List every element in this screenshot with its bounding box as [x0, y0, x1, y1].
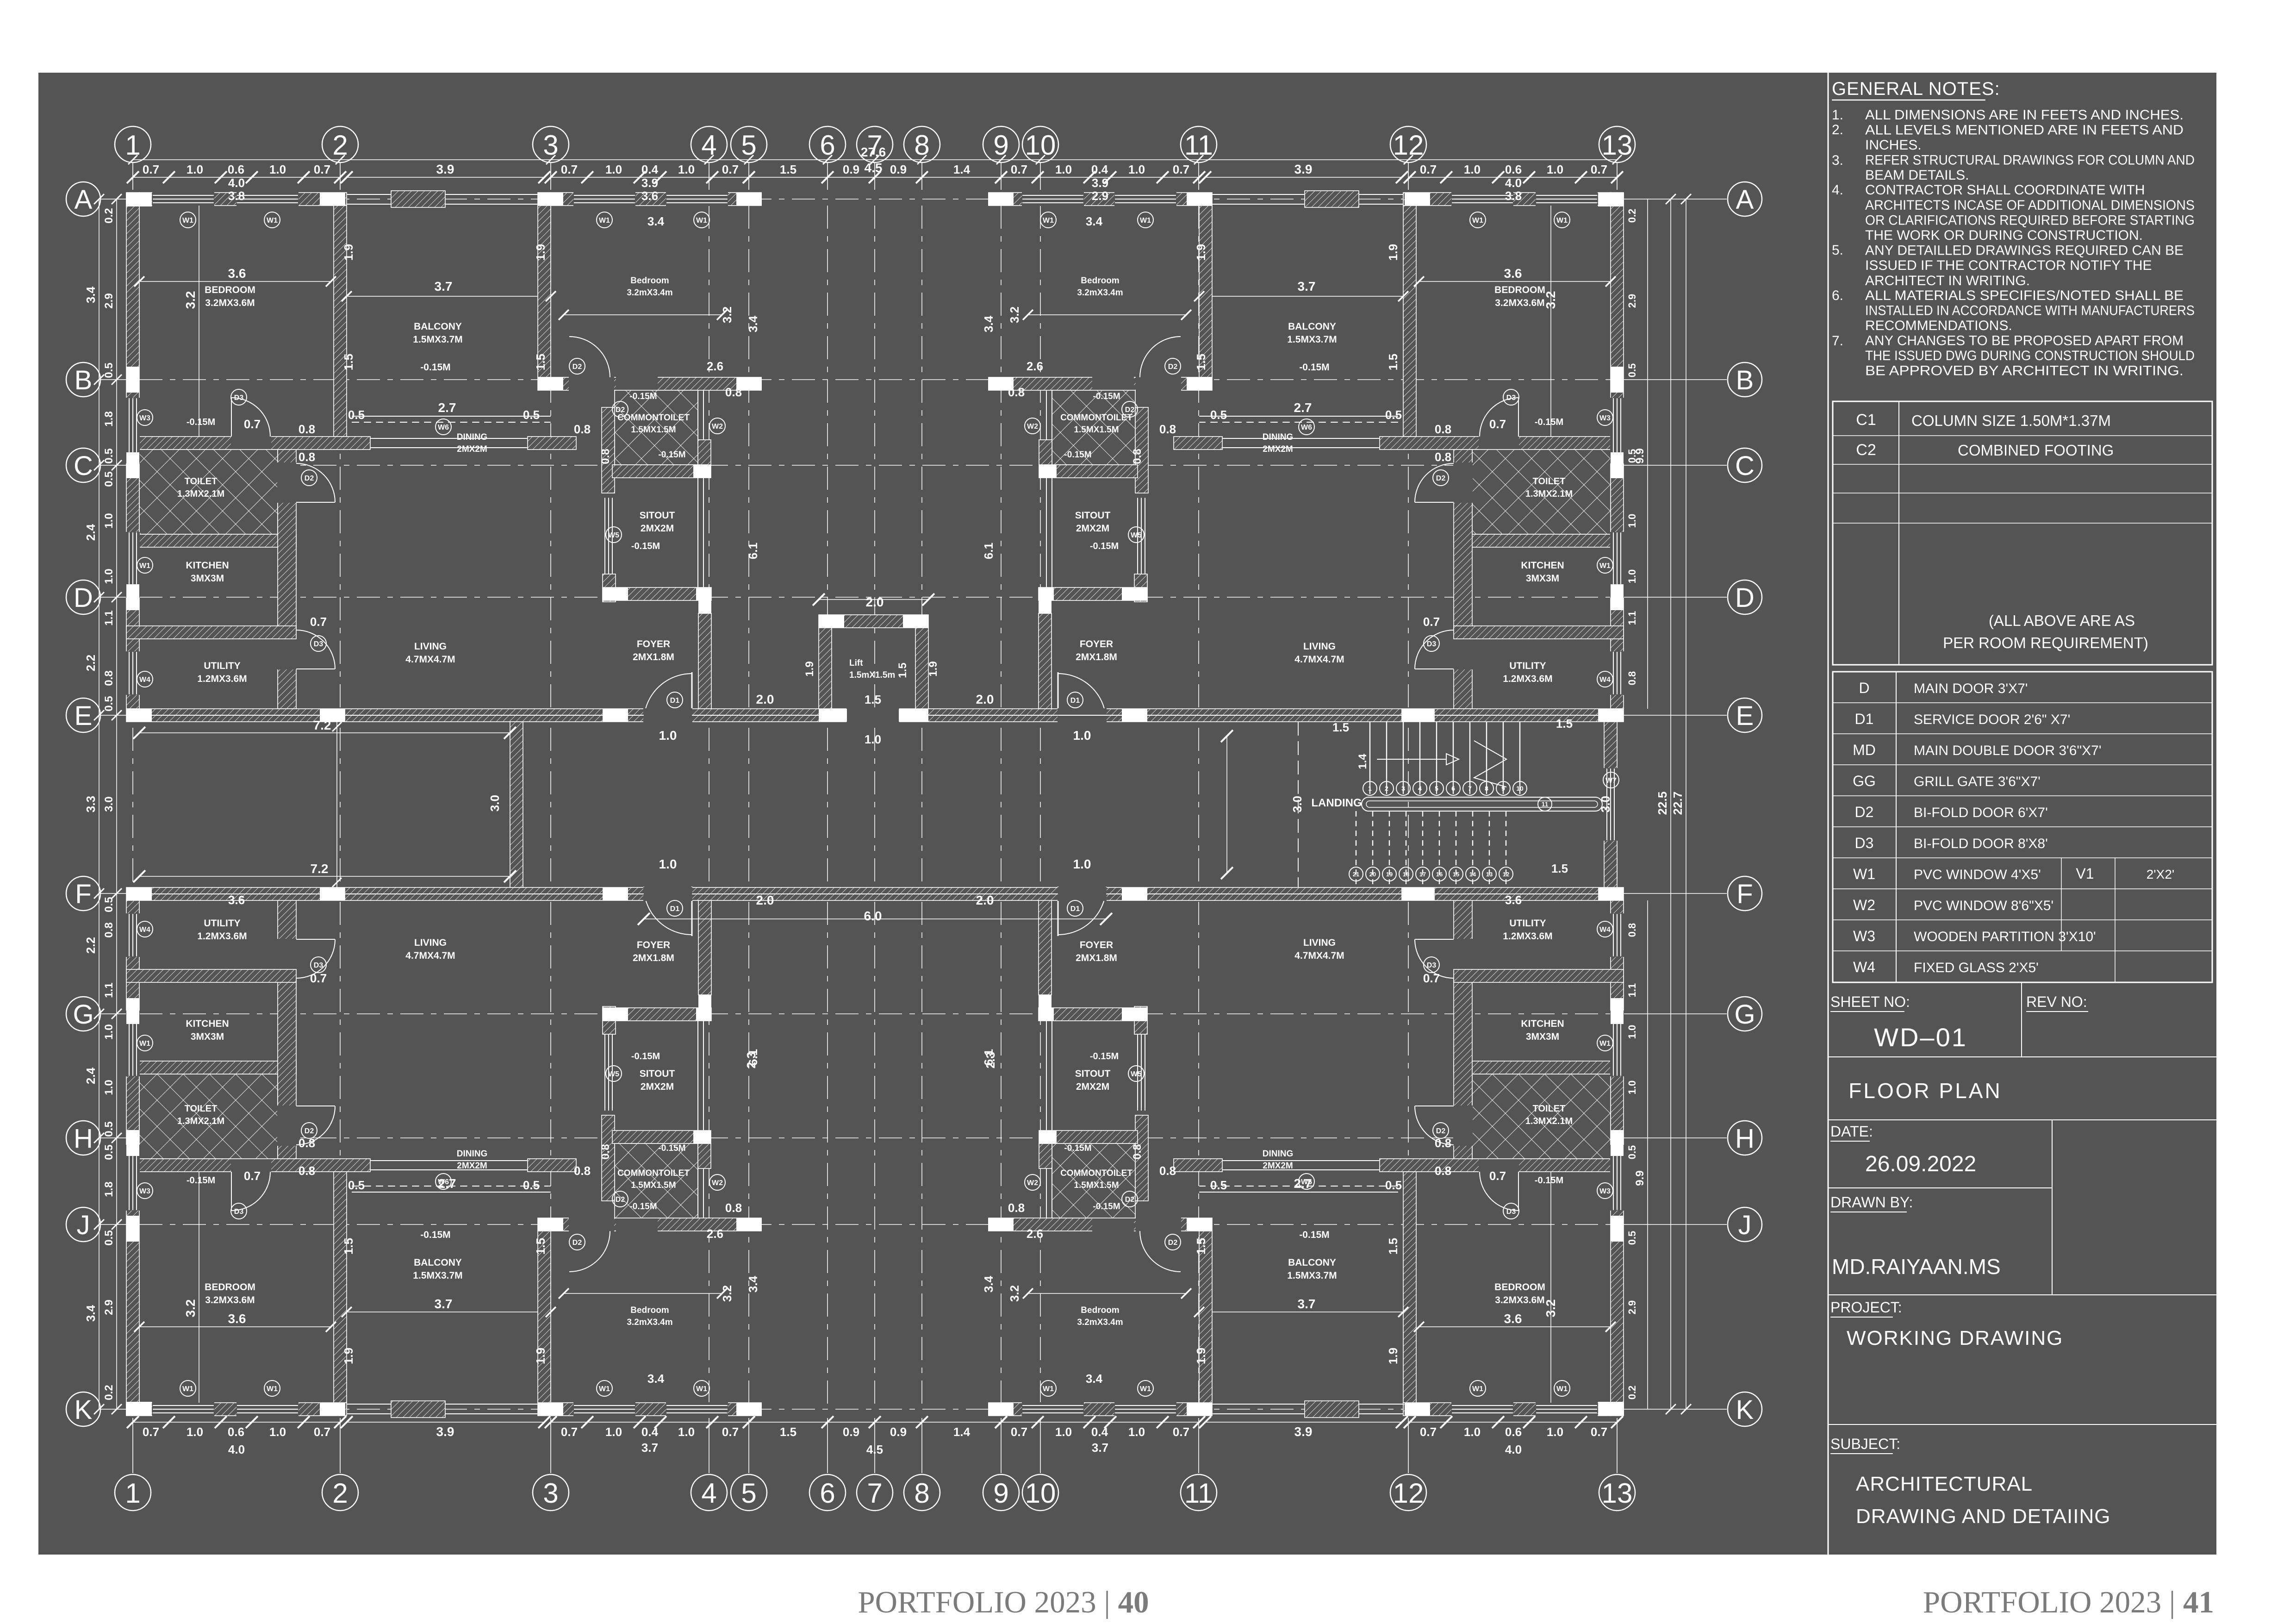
svg-text:3.6: 3.6	[1504, 1312, 1522, 1326]
svg-text:21: 21	[1353, 871, 1359, 878]
svg-text:A: A	[1736, 185, 1754, 215]
svg-text:-0.15M: -0.15M	[420, 1230, 450, 1240]
svg-text:0.8: 0.8	[1435, 1164, 1451, 1178]
svg-text:OR CLARIFICATIONS REQUIRED BEF: OR CLARIFICATIONS REQUIRED BEFORE STARTI…	[1865, 213, 2195, 228]
svg-text:LANDING: LANDING	[1311, 797, 1362, 809]
svg-text:J: J	[1738, 1210, 1752, 1240]
svg-text:3.7: 3.7	[435, 279, 453, 294]
svg-text:3MX3M: 3MX3M	[1526, 573, 1559, 584]
svg-text:1.0: 1.0	[1626, 569, 1638, 584]
svg-text:7.2: 7.2	[313, 718, 331, 732]
lift shaft	[819, 615, 928, 628]
svg-text:LIVING: LIVING	[414, 937, 447, 948]
top dimension rows	[133, 159, 1617, 160]
svg-text:1.2MX3.6M: 1.2MX3.6M	[1503, 674, 1552, 684]
svg-text:1.0: 1.0	[1055, 162, 1072, 176]
svg-text:11: 11	[1542, 800, 1549, 808]
svg-text:3.4: 3.4	[84, 286, 98, 303]
svg-text:1.0: 1.0	[1055, 1425, 1072, 1439]
svg-text:1.5MX3.7M: 1.5MX3.7M	[1287, 334, 1337, 345]
svg-text:10: 10	[1516, 785, 1524, 792]
svg-text:6: 6	[1451, 785, 1455, 792]
svg-text:COMMONTOILET: COMMONTOILET	[1060, 413, 1132, 423]
svg-text:0.5: 0.5	[1626, 1145, 1638, 1160]
svg-text:PVC WINDOW 4'X5': PVC WINDOW 4'X5'	[1914, 867, 2041, 882]
svg-text:0.8: 0.8	[599, 449, 612, 464]
svg-text:0.5: 0.5	[103, 897, 115, 912]
svg-text:1.5: 1.5	[780, 162, 796, 176]
svg-text:2.2: 2.2	[84, 937, 98, 954]
svg-text:LIVING: LIVING	[1303, 641, 1336, 652]
svg-text:0.6: 0.6	[228, 1425, 244, 1439]
svg-text:W1: W1	[696, 217, 707, 225]
svg-text:0.7: 0.7	[561, 162, 578, 176]
svg-text:6: 6	[820, 130, 835, 161]
svg-text:3.7: 3.7	[1092, 1441, 1108, 1455]
svg-text:W6: W6	[438, 424, 449, 431]
svg-text:0.6: 0.6	[1505, 1425, 1522, 1439]
svg-text:-0.15M: -0.15M	[658, 450, 685, 460]
svg-text:SITOUT: SITOUT	[640, 510, 675, 521]
svg-text:1.0: 1.0	[1464, 1425, 1481, 1439]
svg-text:8: 8	[1485, 785, 1488, 792]
svg-text:Bedroom: Bedroom	[1081, 276, 1119, 286]
svg-text:W1: W1	[599, 217, 610, 225]
svg-text:1.0: 1.0	[1073, 857, 1091, 871]
svg-text:1.0: 1.0	[103, 1080, 115, 1095]
svg-text:TOILET: TOILET	[1533, 1104, 1566, 1114]
svg-text:6.1: 6.1	[982, 1049, 996, 1066]
svg-text:3: 3	[543, 130, 558, 161]
svg-text:3.2: 3.2	[720, 1285, 734, 1302]
svg-text:6.1: 6.1	[982, 543, 996, 559]
svg-text:1.0: 1.0	[187, 1425, 203, 1439]
svg-text:2.0: 2.0	[976, 692, 994, 706]
svg-text:4.0: 4.0	[228, 1443, 245, 1456]
stair treads upper flight	[1369, 722, 1370, 794]
svg-text:4.0: 4.0	[228, 176, 245, 190]
svg-text:1.5: 1.5	[1386, 1238, 1400, 1255]
svg-text:0.5: 0.5	[103, 696, 115, 711]
svg-text:2.0: 2.0	[866, 595, 884, 609]
svg-text:W4: W4	[1599, 676, 1611, 684]
svg-text:1.5: 1.5	[342, 1238, 355, 1255]
svg-text:GENERAL NOTES:: GENERAL NOTES:	[1832, 79, 2000, 99]
svg-text:2.9: 2.9	[1626, 1300, 1638, 1315]
svg-text:D2: D2	[1168, 363, 1178, 371]
svg-text:1.8: 1.8	[103, 1181, 115, 1197]
svg-text:W5: W5	[608, 531, 619, 539]
svg-text:D3: D3	[1855, 835, 1874, 851]
svg-text:-0.15M: -0.15M	[658, 1143, 685, 1153]
svg-text:D2: D2	[1125, 406, 1135, 414]
svg-text:17: 17	[1419, 871, 1426, 878]
svg-text:D2: D2	[1436, 475, 1446, 482]
svg-text:3.4: 3.4	[647, 214, 665, 228]
svg-text:0.9: 0.9	[843, 1425, 859, 1439]
svg-text:MAIN DOOR 3'X7': MAIN DOOR 3'X7'	[1914, 681, 2028, 696]
svg-text:22.7: 22.7	[1671, 792, 1685, 815]
svg-text:1.0: 1.0	[1626, 1081, 1638, 1095]
svg-text:8: 8	[914, 130, 929, 161]
svg-text:8: 8	[914, 1478, 929, 1509]
svg-text:1.0: 1.0	[1626, 1025, 1638, 1039]
svg-text:0.7: 0.7	[143, 162, 159, 176]
svg-text:3.6: 3.6	[1505, 893, 1522, 907]
svg-text:2.4: 2.4	[84, 524, 98, 541]
svg-text:3.2mX3.4m: 3.2mX3.4m	[627, 288, 672, 298]
svg-text:BEDROOM: BEDROOM	[1494, 1282, 1545, 1293]
right exterior wall at stairwell	[1604, 722, 1617, 887]
svg-text:1.0: 1.0	[269, 162, 286, 176]
svg-text:1.5: 1.5	[1332, 720, 1349, 734]
svg-text:0.8: 0.8	[1159, 1164, 1176, 1178]
svg-text:D3: D3	[234, 1208, 244, 1216]
svg-text:Lift: Lift	[849, 658, 863, 668]
svg-text:W2: W2	[1027, 1179, 1038, 1187]
svg-text:0.4: 0.4	[641, 162, 659, 176]
svg-text:-0.15M: -0.15M	[629, 392, 657, 401]
svg-text:D3: D3	[314, 640, 324, 648]
svg-text:3.2: 3.2	[720, 306, 734, 323]
svg-text:1.0: 1.0	[269, 1425, 286, 1439]
svg-text:UTILITY: UTILITY	[1509, 918, 1546, 929]
svg-text:1.0: 1.0	[1547, 162, 1563, 176]
svg-text:1.: 1.	[1832, 107, 1843, 123]
svg-text:1.4: 1.4	[953, 1425, 971, 1439]
svg-text:W1: W1	[267, 217, 278, 225]
svg-text:4.: 4.	[1832, 182, 1843, 198]
svg-text:1.5: 1.5	[534, 354, 548, 370]
svg-text:1.2MX3.6M: 1.2MX3.6M	[197, 931, 247, 942]
svg-text:0.8: 0.8	[725, 1201, 742, 1215]
svg-text:1.0: 1.0	[659, 857, 677, 871]
svg-text:FOYER: FOYER	[1080, 940, 1113, 950]
svg-text:D1: D1	[1070, 697, 1080, 705]
svg-text:1.3MX2.1M: 1.3MX2.1M	[1525, 1116, 1573, 1126]
svg-text:1.5: 1.5	[1551, 862, 1568, 875]
svg-text:3.2: 3.2	[1008, 1285, 1021, 1302]
dim ticks unit	[1605, 276, 1616, 287]
svg-text:0.8: 0.8	[299, 1164, 315, 1178]
svg-text:9: 9	[993, 1478, 1008, 1509]
svg-text:0.6: 0.6	[1505, 162, 1522, 176]
svg-text:3.0: 3.0	[1290, 796, 1304, 812]
svg-text:W1: W1	[182, 1385, 193, 1393]
svg-text:ISSUED IF THE CONTRACTOR NOTIF: ISSUED IF THE CONTRACTOR NOTIFY THE	[1865, 258, 2152, 273]
svg-text:0.5: 0.5	[103, 1230, 115, 1245]
svg-text:3.6: 3.6	[1504, 266, 1522, 281]
svg-text:7: 7	[867, 1478, 882, 1509]
svg-text:1.9: 1.9	[803, 661, 816, 676]
svg-text:MD: MD	[1853, 742, 1876, 758]
svg-text:0.7: 0.7	[1489, 417, 1506, 431]
svg-text:3.7: 3.7	[435, 1297, 453, 1311]
svg-text:1.5MX1.5M: 1.5MX1.5M	[1074, 425, 1119, 435]
svg-text:27.6: 27.6	[861, 145, 886, 159]
svg-text:H: H	[1735, 1124, 1755, 1154]
svg-text:SITOUT: SITOUT	[1075, 1068, 1111, 1079]
svg-text:E: E	[75, 701, 93, 731]
svg-text:0.4: 0.4	[1091, 162, 1108, 176]
svg-text:0.7: 0.7	[1591, 162, 1607, 176]
svg-text:5.: 5.	[1832, 243, 1843, 258]
svg-text:FLOOR PLAN: FLOOR PLAN	[1848, 1079, 2002, 1103]
svg-text:3.9: 3.9	[1294, 1424, 1313, 1439]
svg-text:0.7: 0.7	[722, 162, 739, 176]
svg-text:0.5: 0.5	[348, 408, 365, 422]
svg-text:Bedroom: Bedroom	[630, 1305, 669, 1315]
svg-text:1.5: 1.5	[1194, 354, 1208, 370]
svg-text:W4: W4	[139, 676, 150, 684]
svg-text:1.0: 1.0	[678, 1425, 695, 1439]
svg-text:1.0: 1.0	[1626, 514, 1638, 528]
svg-text:GG: GG	[1853, 773, 1876, 789]
svg-text:3.3: 3.3	[84, 796, 98, 812]
svg-text:1.5: 1.5	[1194, 1238, 1208, 1255]
svg-text:2MX2M: 2MX2M	[641, 523, 674, 534]
svg-text:BI-FOLD DOOR 6'X7': BI-FOLD DOOR 6'X7'	[1914, 805, 2048, 820]
svg-text:12: 12	[1393, 1478, 1424, 1509]
svg-text:DINING: DINING	[1263, 1149, 1294, 1159]
svg-text:2.7: 2.7	[438, 400, 456, 415]
svg-text:3.4: 3.4	[1086, 214, 1103, 228]
svg-text:1.3MX2.1M: 1.3MX2.1M	[177, 489, 224, 499]
svg-text:SITOUT: SITOUT	[640, 1068, 675, 1079]
svg-text:COMMONTOILET: COMMONTOILET	[617, 413, 690, 423]
svg-text:15: 15	[1453, 871, 1459, 878]
svg-text:0.8: 0.8	[1131, 449, 1144, 464]
svg-text:WORKING DRAWING: WORKING DRAWING	[1847, 1327, 2063, 1349]
svg-text:0.9: 0.9	[890, 1425, 907, 1439]
svg-text:H: H	[74, 1124, 93, 1154]
svg-text:11: 11	[1184, 1478, 1213, 1509]
svg-text:F: F	[1736, 879, 1753, 909]
svg-text:CONTRACTOR SHALL COORDINATE WI: CONTRACTOR SHALL COORDINATE WITH	[1865, 182, 2145, 198]
svg-text:KITCHEN: KITCHEN	[186, 1018, 229, 1029]
svg-text:D2: D2	[1125, 1196, 1135, 1204]
svg-text:3.4: 3.4	[746, 1275, 760, 1293]
svg-text:1.9: 1.9	[927, 661, 940, 676]
svg-text:D3: D3	[314, 962, 324, 969]
svg-text:1.5MX3.7M: 1.5MX3.7M	[1287, 1270, 1337, 1281]
svg-text:4: 4	[701, 1478, 716, 1509]
svg-text:2.6: 2.6	[1027, 1227, 1043, 1241]
svg-text:3.2: 3.2	[1008, 306, 1021, 323]
svg-text:0.8: 0.8	[1435, 422, 1451, 436]
svg-text:12: 12	[1393, 130, 1424, 161]
svg-text:0.5: 0.5	[523, 1178, 540, 1192]
svg-text:0.2: 0.2	[103, 1385, 115, 1400]
svg-text:4.0: 4.0	[1505, 1443, 1522, 1456]
svg-text:B: B	[1736, 365, 1754, 395]
svg-text:0.2: 0.2	[1626, 1386, 1638, 1400]
svg-text:1.1: 1.1	[103, 610, 115, 625]
svg-text:0.7: 0.7	[561, 1425, 578, 1439]
svg-text:2MX1.8M: 2MX1.8M	[633, 652, 674, 662]
svg-text:1.5MX1.5M: 1.5MX1.5M	[631, 425, 676, 435]
svg-text:0.7: 0.7	[1173, 162, 1189, 176]
svg-text:6: 6	[820, 1478, 835, 1509]
svg-text:1.5: 1.5	[342, 354, 355, 370]
svg-text:V1: V1	[2076, 865, 2094, 882]
svg-text:KITCHEN: KITCHEN	[1521, 560, 1564, 571]
svg-text:3.7: 3.7	[1298, 1297, 1316, 1311]
svg-text:TOILET: TOILET	[1533, 476, 1566, 487]
svg-text:W5: W5	[608, 1070, 619, 1078]
svg-text:COMMONTOILET: COMMONTOILET	[1060, 1168, 1132, 1178]
svg-text:UTILITY: UTILITY	[204, 918, 240, 929]
dim ticks unit	[134, 1322, 144, 1332]
svg-text:2.6: 2.6	[707, 1227, 723, 1241]
svg-text:D2: D2	[1168, 1239, 1178, 1247]
svg-text:0.8: 0.8	[299, 422, 315, 436]
svg-text:KITCHEN: KITCHEN	[1521, 1018, 1564, 1029]
svg-text:PER ROOM REQUIREMENT): PER ROOM REQUIREMENT)	[1943, 634, 2148, 651]
svg-text:13: 13	[1602, 1478, 1633, 1509]
svg-text:BI-FOLD DOOR 8'X8': BI-FOLD DOOR 8'X8'	[1914, 836, 2048, 851]
svg-text:3.4: 3.4	[84, 1305, 98, 1322]
svg-text:ARCHITECT IN WRITING.: ARCHITECT IN WRITING.	[1865, 273, 2030, 288]
svg-text:3.7: 3.7	[1298, 279, 1316, 294]
svg-text:B: B	[75, 365, 93, 395]
svg-text:2: 2	[332, 1478, 348, 1509]
svg-text:1.0: 1.0	[1073, 728, 1091, 743]
svg-text:11: 11	[1184, 130, 1213, 161]
svg-text:-0.15M: -0.15M	[1093, 392, 1120, 401]
svg-text:D2: D2	[1855, 804, 1874, 820]
svg-text:LIVING: LIVING	[414, 641, 447, 652]
svg-text:ANY DETAILLED DRAWINGS REQUIRE: ANY DETAILLED DRAWINGS REQUIRED CAN BE	[1865, 243, 2184, 258]
svg-text:DINING: DINING	[457, 432, 488, 442]
svg-text:1.2MX3.6M: 1.2MX3.6M	[1503, 931, 1552, 942]
svg-text:BEDROOM: BEDROOM	[205, 1282, 255, 1293]
svg-text:(ALL ABOVE ARE AS: (ALL ABOVE ARE AS	[1989, 612, 2135, 629]
svg-text:PORTFOLIO 2023 | 40: PORTFOLIO 2023 | 40	[858, 1585, 1149, 1619]
unit walls quadrant fx=-1 fy=-1	[1611, 899, 1624, 1416]
svg-text:0.7: 0.7	[1489, 1169, 1506, 1183]
svg-text:-0.15M: -0.15M	[1299, 362, 1329, 373]
svg-text:1.9: 1.9	[534, 244, 548, 261]
svg-text:BEDROOM: BEDROOM	[205, 285, 255, 295]
svg-text:PORTFOLIO 2023 | 41: PORTFOLIO 2023 | 41	[1923, 1585, 2214, 1619]
svg-text:3.7: 3.7	[641, 1441, 658, 1455]
svg-text:W3: W3	[1599, 1187, 1611, 1195]
svg-text:0.7: 0.7	[722, 1425, 739, 1439]
svg-text:3.4: 3.4	[982, 1275, 996, 1293]
svg-text:D3: D3	[1506, 1208, 1516, 1216]
right dimension columns	[1670, 199, 1671, 1409]
svg-text:1.1: 1.1	[1626, 983, 1638, 998]
svg-text:C1: C1	[1856, 411, 1876, 429]
svg-text:16: 16	[1436, 871, 1443, 878]
svg-text:INSTALLED IN ACCORDANCE WITH M: INSTALLED IN ACCORDANCE WITH MANUFACTURE…	[1865, 303, 2195, 319]
svg-text:W5: W5	[1131, 1070, 1142, 1078]
svg-text:WD–01: WD–01	[1874, 1023, 1967, 1052]
svg-text:3MX3M: 3MX3M	[191, 573, 224, 584]
svg-text:W4: W4	[1599, 926, 1611, 934]
svg-text:0.5: 0.5	[1626, 449, 1638, 463]
svg-text:12: 12	[1503, 871, 1509, 878]
svg-text:W1: W1	[1140, 1385, 1151, 1393]
svg-text:1.5mX1.5m: 1.5mX1.5m	[849, 670, 895, 680]
svg-text:Bedroom: Bedroom	[1081, 1305, 1119, 1315]
svg-text:2.: 2.	[1832, 122, 1843, 137]
svg-text:ARCHITECTS INCASE OF ADDITIONA: ARCHITECTS INCASE OF ADDITIONAL DIMENSIO…	[1865, 198, 2195, 213]
unit walls quadrant fx=-1 fy=1	[1611, 193, 1624, 709]
svg-text:3.2MX3.6M: 3.2MX3.6M	[205, 298, 255, 308]
svg-text:2.0: 2.0	[756, 692, 774, 706]
svg-text:1.0: 1.0	[103, 1024, 115, 1039]
svg-text:4.0: 4.0	[1505, 176, 1522, 190]
svg-text:3.4: 3.4	[647, 1372, 665, 1386]
svg-text:REFER STRUCTURAL DRAWINGS FOR: REFER STRUCTURAL DRAWINGS FOR COLUMN AND	[1865, 153, 2195, 168]
svg-text:1.5: 1.5	[780, 1425, 796, 1439]
svg-text:1.0: 1.0	[1464, 162, 1481, 176]
svg-text:C2: C2	[1856, 441, 1876, 459]
svg-text:3.2MX3.6M: 3.2MX3.6M	[1495, 1295, 1544, 1305]
svg-text:4.7MX4.7M: 4.7MX4.7M	[405, 950, 455, 961]
svg-text:0.4: 0.4	[641, 1425, 659, 1439]
svg-text:KITCHEN: KITCHEN	[186, 560, 229, 571]
svg-text:2MX2M: 2MX2M	[1076, 523, 1109, 534]
grid bubbles	[115, 126, 151, 162]
svg-text:2.9: 2.9	[103, 1299, 115, 1315]
svg-text:2MX1.8M: 2MX1.8M	[633, 953, 674, 963]
svg-text:-0.15M: -0.15M	[187, 417, 215, 427]
svg-text:1.9: 1.9	[1194, 244, 1208, 261]
svg-text:D2: D2	[305, 475, 314, 482]
svg-text:D1: D1	[670, 697, 680, 705]
svg-text:D2: D2	[572, 1239, 582, 1247]
svg-text:3: 3	[1401, 785, 1405, 792]
svg-text:D3: D3	[1427, 962, 1437, 969]
svg-text:ALL DIMENSIONS ARE IN FEETS AN: ALL DIMENSIONS ARE IN FEETS AND INCHES.	[1865, 107, 2184, 123]
dim ticks unit	[1605, 1322, 1616, 1332]
svg-text:2MX1.8M: 2MX1.8M	[1076, 652, 1117, 662]
svg-text:3.4: 3.4	[982, 315, 996, 332]
svg-text:D2: D2	[616, 1196, 625, 1204]
svg-text:3MX3M: 3MX3M	[191, 1031, 224, 1042]
svg-text:1.8: 1.8	[103, 411, 115, 426]
svg-text:0.8: 0.8	[725, 385, 742, 399]
svg-text:D1: D1	[1070, 905, 1080, 913]
svg-text:D2: D2	[1436, 1127, 1446, 1135]
svg-text:FIXED GLASS 2'X5': FIXED GLASS 2'X5'	[1914, 960, 2039, 975]
svg-text:1.4: 1.4	[953, 162, 971, 176]
svg-text:BALCONY: BALCONY	[414, 1257, 462, 1268]
svg-text:0.7: 0.7	[244, 417, 261, 431]
svg-text:1.9: 1.9	[342, 1348, 355, 1364]
svg-text:14: 14	[1469, 871, 1476, 878]
grid dashed lines	[132, 162, 133, 190]
svg-text:0.8: 0.8	[103, 670, 115, 686]
svg-text:W4: W4	[1853, 959, 1875, 975]
svg-text:1.0: 1.0	[605, 162, 622, 176]
svg-text:W3: W3	[1599, 414, 1611, 422]
svg-text:0.7: 0.7	[1591, 1425, 1607, 1439]
svg-text:3.9: 3.9	[436, 162, 454, 176]
svg-text:BEDROOM: BEDROOM	[1494, 285, 1545, 295]
svg-text:2MX2M: 2MX2M	[1263, 1161, 1293, 1171]
svg-text:1.9: 1.9	[534, 1348, 548, 1364]
svg-text:9.9: 9.9	[1634, 1170, 1646, 1186]
svg-text:0.5: 0.5	[1626, 1231, 1638, 1245]
svg-text:6.1: 6.1	[746, 543, 760, 559]
svg-text:0.8: 0.8	[1008, 385, 1025, 399]
svg-text:PVC WINDOW 8'6"X5': PVC WINDOW 8'6"X5'	[1914, 898, 2053, 913]
svg-text:D2: D2	[572, 363, 582, 371]
